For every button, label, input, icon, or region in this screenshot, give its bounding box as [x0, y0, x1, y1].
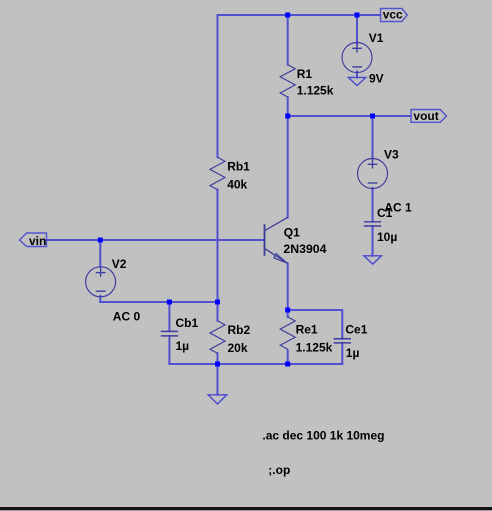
- svg-text:Ce1: Ce1: [345, 323, 367, 337]
- svg-text:2N3904: 2N3904: [283, 242, 326, 256]
- wire Re1 top lead: [287, 310, 289, 317]
- node junction vout R1: [285, 114, 290, 119]
- wire C1 to ground: [372, 226, 374, 256]
- ground (below V1): [348, 77, 366, 85]
- wire Rb1 top lead: [217, 15, 219, 157]
- svg-text:Q1: Q1: [284, 226, 300, 240]
- svg-text:AC 0: AC 0: [113, 309, 141, 323]
- wire Cb1 top lead: [168, 302, 170, 331]
- node vcc flag: [381, 8, 408, 22]
- svg-text:1µ: 1µ: [346, 346, 360, 360]
- ground (below C1): [364, 256, 382, 264]
- wire V2 top stub: [99, 240, 101, 267]
- window bottom border line: [0, 507, 492, 510]
- capacitor C1: [364, 222, 381, 226]
- wire emitter drop: [287, 263, 289, 310]
- wire V1 bottom stub to ground: [356, 72, 358, 78]
- wire V2 bottom elbow: [100, 296, 217, 302]
- capacitor Ce1: [334, 339, 351, 343]
- wire emitter rail to Ce1: [288, 310, 343, 339]
- wire Rb2 top lead: [217, 302, 219, 321]
- wire Rb1 bottom lead: [217, 190, 219, 302]
- node junction top V1: [355, 13, 360, 18]
- node vin flag: [20, 233, 47, 248]
- wire Ce1 bottom lead: [341, 343, 343, 364]
- voltage source V2: [86, 267, 116, 297]
- node vout flag: [411, 109, 447, 123]
- svg-text:vout: vout: [413, 109, 438, 123]
- wire Rb2 bottom lead: [217, 353, 219, 364]
- wire vout rail: [288, 115, 411, 117]
- svg-text:.ac dec 100 1k 10meg: .ac dec 100 1k 10meg: [262, 429, 384, 443]
- voltage source V3: [358, 159, 388, 189]
- svg-text:40k: 40k: [227, 178, 247, 192]
- svg-text:V2: V2: [112, 257, 127, 271]
- svg-text:Rb1: Rb1: [227, 159, 250, 173]
- svg-text:20k: 20k: [228, 341, 248, 355]
- wire Rb2 ground stub: [217, 364, 219, 395]
- voltage source V1: [342, 43, 372, 73]
- node junction Rb2 top: [215, 300, 220, 305]
- svg-text:vin: vin: [29, 234, 46, 248]
- wire collector drop: [287, 116, 289, 218]
- node junction Re1 bottom: [285, 362, 290, 367]
- wire V1 top stub: [356, 15, 358, 44]
- svg-text:9V: 9V: [369, 72, 384, 86]
- capacitor Cb1: [161, 331, 178, 336]
- svg-text:Cb1: Cb1: [176, 316, 199, 330]
- svg-text:V3: V3: [384, 148, 399, 162]
- svg-text:;.op: ;.op: [268, 463, 290, 477]
- wire bottom rail: [169, 363, 342, 365]
- resistor Rb1: [210, 157, 225, 189]
- resistor Rb2: [210, 321, 225, 353]
- wire top rail vcc: [218, 14, 381, 16]
- svg-text:Rb2: Rb2: [228, 323, 251, 337]
- wire Cb1 bottom lead: [168, 336, 170, 364]
- node junction Cb1 top: [167, 300, 172, 305]
- wire vin rail to base: [47, 239, 265, 241]
- wire Re1 bottom lead: [287, 350, 289, 364]
- wire R1 top lead from top rail: [287, 15, 289, 65]
- node junction emitter: [285, 308, 290, 313]
- svg-text:10µ: 10µ: [377, 230, 397, 244]
- svg-text:Re1: Re1: [296, 323, 318, 337]
- node junction vin V2: [98, 238, 103, 243]
- svg-text:1.125k: 1.125k: [296, 340, 333, 354]
- ground (below Rb2): [208, 395, 227, 404]
- svg-text:R1: R1: [297, 67, 313, 81]
- wire V3 to C1: [372, 188, 374, 222]
- svg-text:V1: V1: [369, 31, 384, 45]
- wire V3 top stub: [372, 116, 374, 159]
- transistor Q1: [265, 217, 288, 263]
- resistor R1: [280, 65, 295, 97]
- wire R1 bottom lead: [287, 97, 289, 116]
- node junction top R1: [285, 13, 290, 18]
- node junction Rb2 bottom: [215, 362, 220, 367]
- node junction vout V3: [370, 114, 375, 119]
- svg-text:1µ: 1µ: [176, 339, 190, 353]
- resistor Re1: [280, 317, 295, 349]
- svg-text:AC 1: AC 1: [384, 201, 412, 215]
- svg-text:vcc: vcc: [383, 8, 403, 22]
- svg-text:1.125k: 1.125k: [297, 83, 334, 97]
